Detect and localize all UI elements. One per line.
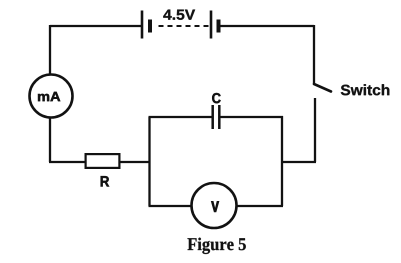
label C xyxy=(212,93,220,103)
wire inner loop right vertical xyxy=(281,116,283,206)
wire inner loop top-right segment xyxy=(221,116,284,118)
battery B1 left cell short plate xyxy=(148,20,152,33)
capacitor C left plate xyxy=(211,105,214,129)
value label 4.5V xyxy=(163,10,195,20)
voltmeter V xyxy=(192,183,237,228)
wire inner loop top-left segment xyxy=(149,116,213,118)
battery B1 right cell long plate xyxy=(210,11,213,39)
switch S1 blade xyxy=(314,84,331,92)
wire bottom-left horizontal to resistor xyxy=(49,161,86,163)
battery B1 right cell short plate xyxy=(217,20,221,33)
wire top-left horizontal xyxy=(50,25,142,27)
ammeter mA xyxy=(30,75,73,118)
wire switch lower terminal vertical xyxy=(314,98,316,162)
capacitor C right plate xyxy=(218,105,221,129)
wire right junction horizontal xyxy=(282,161,316,163)
caption Figure 5 xyxy=(188,238,246,254)
wire dashed between battery cells xyxy=(159,25,209,27)
wire top-right horizontal xyxy=(221,25,315,27)
wire inner loop left vertical xyxy=(148,117,150,206)
wire inner loop bottom-right segment xyxy=(237,205,284,207)
wire resistor to inner loop xyxy=(121,161,151,163)
label R xyxy=(101,176,109,186)
wire right vertical to switch xyxy=(313,25,315,84)
battery B1 left cell long plate xyxy=(141,11,144,39)
wire left vertical bottom (ammeter to corner) xyxy=(49,118,51,163)
wire inner loop bottom-left segment xyxy=(149,205,193,207)
resistor R body xyxy=(86,154,120,168)
wire left vertical top (corner to ammeter) xyxy=(49,25,51,75)
switch label xyxy=(341,84,390,95)
